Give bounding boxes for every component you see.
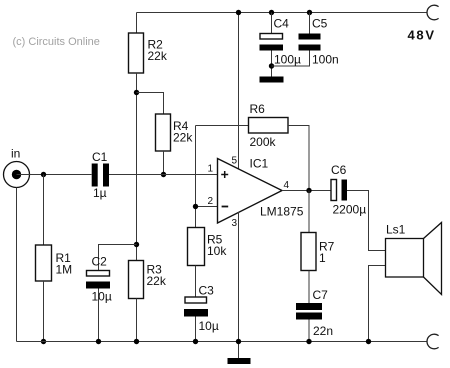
- wire: R6 right to output node: [288, 126, 309, 191]
- wire: speaker bottom terminal to ground rail: [369, 266, 386, 342]
- resistor R5: [188, 228, 205, 266]
- svg-text:IC1: IC1: [250, 157, 269, 171]
- junction: C2/ground rail: [96, 339, 101, 344]
- junction: C3/ground rail: [193, 339, 198, 344]
- wire: R1 bottom: [43, 281, 45, 342]
- junction: C5/top rail: [307, 10, 312, 15]
- wire: op-amp pin 3 to ground: [238, 212, 240, 359]
- symbol: inverting -: [222, 206, 229, 208]
- wire: C1 to op-amp pin 1: [109, 174, 217, 176]
- connector: output return terminal: [427, 334, 439, 349]
- svg-text:(c) Circuits Online: (c) Circuits Online: [13, 36, 100, 48]
- svg-text:C3: C3: [199, 284, 215, 298]
- svg-text:1: 1: [207, 164, 213, 175]
- capacitor C3 positive plate: [185, 297, 207, 303]
- wire: ground bottom rail: [17, 341, 428, 343]
- wire: R2 top stub: [136, 13, 138, 34]
- wire: R1 top: [43, 175, 45, 246]
- wire: feedback vertical to R5: [195, 126, 197, 228]
- junction: R3/ground rail: [134, 339, 139, 344]
- wire: R4 bottom to input net: [163, 151, 165, 175]
- capacitor C2 negative plate: [86, 282, 110, 289]
- wire: +48V top rail: [137, 12, 428, 14]
- wire: R2 bottom to R3 vertical: [136, 73, 138, 261]
- junction: input/R1 node: [41, 172, 46, 177]
- junction: R4/input node: [161, 172, 166, 177]
- capacitor C7 plate 1: [296, 303, 322, 310]
- junction: R1/ground rail: [41, 339, 46, 344]
- capacitor C5 plate 2: [299, 45, 321, 51]
- capacitor C6 negative plate: [342, 180, 348, 201]
- capacitor C4 positive plate: [260, 34, 283, 40]
- junction: speaker/ground rail: [366, 339, 371, 344]
- junction: C4/top rail: [269, 10, 274, 15]
- svg-text:C4: C4: [274, 17, 290, 31]
- svg-text:LM1875: LM1875: [260, 205, 304, 219]
- svg-text:C5: C5: [312, 17, 328, 31]
- junction: C4/C5 ground node: [269, 63, 274, 68]
- resistor R6: [249, 118, 289, 134]
- resistor R3: [129, 261, 144, 299]
- junction: C7/ground rail: [306, 339, 311, 344]
- junction: output node: [306, 188, 311, 193]
- capacitor C1: [92, 164, 98, 187]
- capacitor C2 positive plate: [87, 271, 110, 277]
- junction: pin3/ground rail: [236, 339, 241, 344]
- capacitor C6 positive plate: [331, 180, 337, 201]
- resistor R4: [156, 114, 171, 151]
- svg-text:22k: 22k: [147, 274, 167, 288]
- wire: op-amp pin 2 stub: [196, 206, 218, 208]
- svg-text:4: 4: [284, 180, 290, 191]
- capacitor C7 plate 2: [296, 313, 322, 320]
- resistor R1: [36, 245, 52, 281]
- svg-text:10µ: 10µ: [199, 319, 219, 333]
- svg-text:in: in: [11, 147, 20, 161]
- junction: pin2/R5/feedback node: [193, 204, 198, 209]
- svg-text:C6: C6: [331, 163, 347, 177]
- wire: R5 to C3: [195, 266, 197, 298]
- capacitor C3 negative plate: [184, 309, 208, 317]
- svg-text:1: 1: [319, 251, 326, 265]
- wire: jumper to C2: [99, 245, 137, 271]
- wire: C5 top stub: [309, 13, 311, 34]
- connector: 48V supply terminal: [427, 5, 439, 20]
- ground: pin 3 ground bar: [228, 358, 251, 364]
- wire: C2 bottom: [98, 289, 100, 342]
- wire: C7 bottom: [308, 320, 310, 342]
- wire: input to C1: [17, 174, 92, 176]
- junction: pin5/top rail: [236, 10, 241, 15]
- wire: op-amp output pin 4: [282, 190, 331, 192]
- svg-text:100µ: 100µ: [274, 53, 301, 67]
- wire: R7 to C7: [308, 271, 310, 304]
- connector: input socket "in": [4, 162, 30, 188]
- svg-text:10µ: 10µ: [92, 290, 112, 304]
- svg-text:100n: 100n: [312, 53, 339, 67]
- ground: C4/C5 ground bar: [260, 77, 284, 83]
- symbol: non-inverting +: [221, 171, 228, 178]
- svg-text:10k: 10k: [207, 244, 227, 258]
- junction: C2/R3 node: [134, 242, 139, 247]
- svg-text:Ls1: Ls1: [386, 223, 406, 237]
- svg-text:C2: C2: [92, 255, 108, 269]
- wire: C4 bottom to ground symbol: [271, 51, 273, 77]
- svg-text:5: 5: [231, 156, 237, 167]
- wire: C4 top stub: [271, 13, 273, 34]
- wire: input socket ground drop: [16, 188, 18, 342]
- svg-text:1M: 1M: [56, 263, 73, 277]
- svg-text:22k: 22k: [148, 49, 168, 63]
- wire: R7 top: [308, 191, 310, 233]
- svg-text:22k: 22k: [173, 131, 193, 145]
- wire: C5 bottom to ground node: [272, 51, 310, 67]
- wire: op-amp pin 5 to +48V rail: [238, 13, 240, 170]
- svg-text:C1: C1: [92, 150, 108, 164]
- svg-text:48V: 48V: [408, 28, 436, 43]
- op-amp IC1 (LM1875): [218, 159, 283, 224]
- wire: R3 bottom: [136, 299, 138, 342]
- wire: C3 bottom: [195, 317, 197, 342]
- svg-text:C7: C7: [313, 288, 329, 302]
- wire: feedback horizontal to R6: [196, 125, 249, 127]
- capacitor C4 negative plate: [260, 45, 284, 51]
- capacitor C5 plate 1: [299, 34, 321, 40]
- svg-text:200k: 200k: [250, 135, 277, 149]
- speaker Ls1: [386, 239, 424, 278]
- junction: R2/R4 node: [134, 90, 139, 95]
- svg-text:1µ: 1µ: [93, 186, 107, 200]
- resistor R7: [301, 233, 316, 271]
- svg-text:R6: R6: [250, 102, 266, 116]
- svg-text:2200µ: 2200µ: [333, 203, 367, 217]
- wire: C6 to speaker top terminal: [347, 191, 386, 251]
- resistor R2: [129, 33, 144, 73]
- wire: jumper to R4 top: [137, 93, 164, 115]
- svg-text:3: 3: [231, 218, 237, 229]
- svg-text:2: 2: [207, 196, 213, 207]
- svg-text:22n: 22n: [313, 324, 333, 338]
